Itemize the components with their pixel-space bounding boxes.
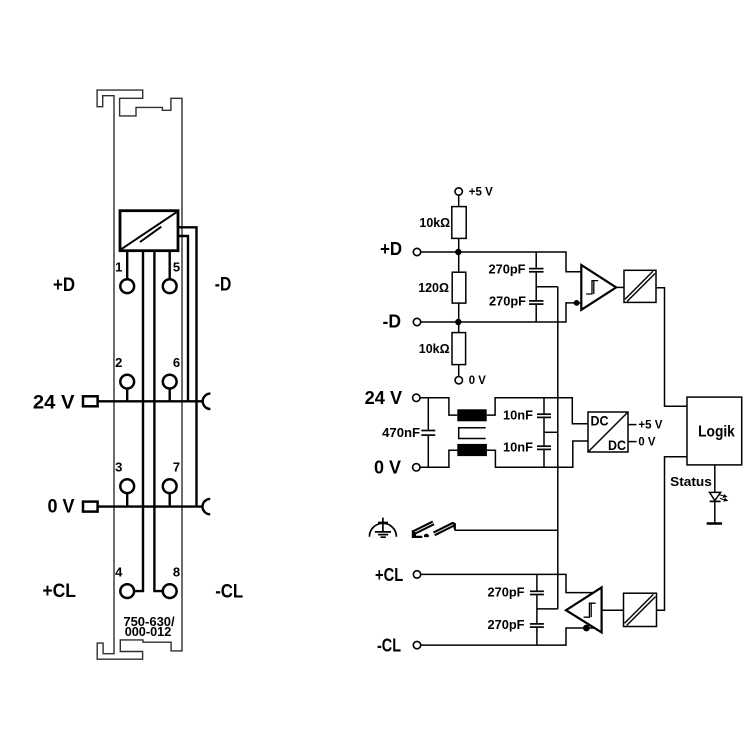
wire box to 0V rail: [178, 227, 197, 506]
status LED D1: [710, 492, 721, 501]
label 270pF C4: [488, 617, 525, 632]
0V terminal schematic: [413, 464, 420, 471]
svg-text:5: 5: [173, 260, 180, 275]
capacitor C6 10nF wire top: [543, 398, 545, 414]
svg-text:-D: -D: [215, 274, 232, 295]
pin number 7: [173, 460, 180, 475]
capacitor C4 270pF plates: [530, 624, 544, 627]
wire C7 to 0V rail: [543, 450, 545, 467]
power converter box U1 in module: [120, 211, 178, 251]
resistor R1 10kOhm: [452, 207, 466, 239]
node dot -D/R2: [455, 319, 461, 325]
+D terminal: [413, 248, 420, 255]
capacitor C5 470nF wire: [427, 398, 429, 468]
pin number 8: [173, 565, 180, 580]
svg-text:270pF: 270pF: [488, 585, 525, 600]
24V rail in module: [98, 400, 202, 402]
label 10kOhm R3: [419, 341, 450, 356]
svg-text:Status: Status: [670, 475, 712, 489]
label 0 V schematic: [374, 458, 401, 478]
label 0 V below R3: [469, 375, 486, 387]
capacitor C2 270pF plates: [529, 301, 544, 304]
terminal 4: [120, 584, 134, 598]
wire L1 to DC/DC upper: [487, 398, 588, 424]
label 24 V module: [33, 392, 75, 413]
label 270pF C2: [489, 294, 526, 309]
terminal 7 stem: [168, 494, 170, 507]
wire +CL to driver output: [421, 574, 593, 592]
module housing outline 750-630: [97, 90, 182, 659]
svg-text:-CL: -CL: [215, 581, 243, 602]
wire 0V to choke L2: [420, 450, 457, 467]
wire L2 to DC/DC lower: [487, 441, 588, 467]
terminal 3 stem: [126, 494, 128, 507]
terminal 8: [163, 584, 177, 598]
svg-text:+CL: +CL: [375, 565, 403, 585]
wire LED to common: [714, 501, 716, 523]
svg-text:270pF: 270pF: [488, 617, 525, 632]
terminal 6 stem: [168, 389, 170, 401]
svg-text:0 V: 0 V: [374, 458, 401, 478]
optocoupler U3 bottom: [624, 593, 657, 626]
wire C4 to -CL rail: [536, 628, 538, 645]
svg-text:6: 6: [173, 355, 180, 370]
24V terminal schematic: [413, 394, 420, 401]
svg-text:+5 V: +5 V: [638, 420, 662, 432]
LED light arrows: [719, 495, 727, 501]
label Logik: [698, 423, 735, 440]
label +CL schematic: [375, 565, 403, 585]
svg-text:10kΩ: 10kΩ: [419, 341, 450, 356]
wire box to terminal 8: [154, 251, 162, 591]
terminal 2: [120, 375, 134, 389]
wire C6 to mid node: [543, 418, 545, 445]
svg-text:10nF: 10nF: [503, 440, 533, 455]
node dot driver inverted output: [583, 625, 590, 632]
wire mid node to shield bus: [536, 286, 558, 288]
terminal 3: [120, 479, 134, 493]
svg-text:0 V: 0 V: [48, 496, 75, 517]
svg-text:DC: DC: [608, 438, 626, 453]
resistor R3 10kOhm: [452, 333, 466, 365]
pin number 4: [115, 565, 123, 580]
0V left power contact: [83, 502, 98, 512]
svg-text:4: 4: [115, 565, 123, 580]
optocoupler U2 top: [624, 270, 656, 302]
label -CL module: [215, 581, 243, 602]
label Status: [670, 475, 712, 489]
wire CL mid node to shield bus: [537, 608, 558, 610]
label +CL module: [42, 581, 76, 602]
wire +D to R2: [458, 252, 460, 272]
0V rail in module: [98, 505, 202, 507]
label -CL schematic: [377, 636, 401, 656]
pin number 1: [115, 260, 122, 275]
module type 750-630/000-012: [123, 614, 175, 639]
LED common bar: [707, 522, 722, 525]
label DC lower: [608, 438, 626, 453]
wire -CL to driver inverted output: [421, 628, 594, 645]
wire box to terminal 5: [168, 251, 170, 279]
wire C2 to -D rail: [535, 305, 537, 322]
svg-text:DC: DC: [591, 414, 609, 429]
terminal 7: [163, 479, 177, 493]
wire +D rail to comparator upper input: [421, 252, 582, 272]
terminal 6: [163, 375, 177, 389]
driver A2 with hysteresis: [566, 587, 602, 632]
wire box to 24V rail: [178, 236, 188, 401]
wire +5V to R1: [458, 195, 460, 206]
svg-text:+D: +D: [53, 275, 75, 296]
node dot +D/R1: [455, 249, 461, 255]
label +5 V DC/DC: [638, 420, 662, 432]
wire A2 input from optocoupler: [602, 609, 624, 611]
capacitor C3 270pF plates: [530, 591, 544, 594]
DC/DC converter box: [588, 412, 628, 452]
wire -D rail to comparator lower input: [421, 303, 582, 322]
wire 24V to choke L1: [420, 398, 457, 415]
pin number 2: [115, 355, 122, 370]
pin number 3: [115, 460, 122, 475]
24V right power jumper contact: [203, 394, 211, 409]
svg-text:Logik: Logik: [698, 423, 735, 440]
wire R1 to +D rail: [458, 238, 460, 252]
node dot comparator inverting input: [574, 300, 580, 306]
+5V supply terminal: [455, 188, 462, 195]
+5V output stub: [628, 424, 637, 426]
resistor R2 120Ohm: [452, 272, 466, 303]
capacitor C1 270pF plates: [529, 269, 544, 272]
DIN rail contact icon: [412, 521, 456, 538]
capacitor C6 10nF plates: [537, 414, 551, 417]
label +D module: [53, 275, 75, 296]
label 24 V schematic: [365, 388, 402, 408]
svg-text:+CL: +CL: [42, 581, 76, 602]
svg-text:10nF: 10nF: [503, 407, 533, 422]
0V terminal below R3: [455, 377, 462, 384]
choke core symbol: [459, 428, 486, 439]
label 120Ohm R2: [418, 280, 449, 295]
wire 10nF mid node to shield bus: [544, 431, 558, 433]
functional earth symbol: [369, 518, 396, 538]
label +5 V top: [469, 186, 493, 198]
svg-text:24 V: 24 V: [33, 392, 75, 413]
label 10kOhm R1: [419, 215, 450, 230]
choke L2 winding: [457, 444, 487, 456]
svg-text:+5 V: +5 V: [469, 186, 493, 198]
capacitor C7 10nF plates: [537, 446, 551, 449]
wire box to terminal 1: [126, 251, 128, 279]
Logik box: [687, 397, 742, 465]
shield bus vertical: [557, 287, 559, 609]
choke L1 winding: [457, 409, 486, 421]
wire box to terminal 4: [135, 251, 143, 591]
svg-text:0 V: 0 V: [469, 375, 486, 387]
label -D module: [215, 274, 232, 295]
capacitor C1 270pF wire top: [535, 252, 537, 268]
wire A1 output to optocoupler: [616, 286, 624, 288]
terminal 2 stem: [126, 389, 128, 401]
svg-text:120Ω: 120Ω: [418, 280, 449, 295]
capacitor C3 270pF wire top: [536, 574, 538, 590]
wire rail contact to shield bus: [455, 529, 558, 531]
label 270pF C1: [489, 262, 526, 277]
terminal 5: [163, 279, 177, 293]
pin number 5: [173, 260, 180, 275]
label 470nF C5: [382, 425, 420, 440]
wire -D to R3: [458, 322, 460, 333]
-CL terminal: [413, 641, 420, 648]
svg-text:270pF: 270pF: [489, 262, 526, 277]
svg-text:8: 8: [173, 565, 180, 580]
label DC upper: [591, 414, 609, 429]
svg-text:-D: -D: [383, 312, 402, 332]
svg-text:2: 2: [115, 355, 122, 370]
label -D schematic: [383, 312, 402, 332]
svg-text:000-012: 000-012: [125, 624, 172, 639]
svg-text:470nF: 470nF: [382, 425, 420, 440]
label +D schematic: [380, 239, 402, 259]
svg-text:7: 7: [173, 460, 180, 475]
svg-text:3: 3: [115, 460, 122, 475]
wire U2 output to Logik: [656, 288, 687, 407]
0V right power jumper contact: [202, 499, 210, 514]
label 0 V DC/DC: [638, 437, 655, 449]
wire R2 to -D rail: [458, 303, 460, 322]
24V left power contact: [83, 396, 98, 406]
comparator A1 with hysteresis: [581, 265, 616, 310]
svg-text:+D: +D: [380, 239, 402, 259]
terminal 1: [120, 279, 134, 293]
wire C1 to mid node: [535, 273, 537, 301]
svg-text:10kΩ: 10kΩ: [419, 215, 450, 230]
svg-text:24 V: 24 V: [365, 388, 402, 408]
0V output stub: [628, 441, 637, 443]
wire R3 to 0V: [458, 365, 460, 377]
label 10nF C6: [503, 407, 533, 422]
svg-text:0 V: 0 V: [638, 437, 655, 449]
capacitor C5 470nF plates: [421, 431, 435, 436]
+CL terminal: [413, 571, 420, 578]
wire C3 to mid node: [536, 595, 538, 623]
wire Logik to optocoupler U3: [657, 457, 688, 611]
svg-text:1: 1: [115, 260, 122, 275]
wire Logik to status LED: [714, 465, 716, 493]
-D terminal: [413, 318, 420, 325]
pin number 6: [173, 355, 180, 370]
hysteresis symbol A2: [584, 603, 596, 617]
svg-text:270pF: 270pF: [489, 294, 526, 309]
svg-text:-CL: -CL: [377, 636, 401, 656]
hysteresis symbol A1: [586, 281, 598, 294]
label 270pF C3: [488, 585, 525, 600]
label 0 V module: [48, 496, 75, 517]
label 10nF C7: [503, 440, 533, 455]
